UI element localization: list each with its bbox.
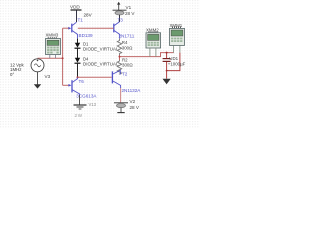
T6 base arrow [68, 84, 71, 87]
wire mid node to T2 base (red) [78, 76, 112, 78]
svg-text:R4: R4 [122, 40, 128, 45]
battery V2 [114, 99, 140, 112]
source V3 [31, 59, 44, 72]
svg-text:2W: 2W [75, 113, 83, 118]
svg-text:V13: V13 [89, 102, 97, 107]
svg-text:2N1711: 2N1711 [119, 33, 135, 38]
wire input net (red) [38, 28, 114, 85]
ground arrow V3 [34, 84, 41, 88]
svg-text:T6: T6 [79, 79, 85, 84]
svg-text:T1: T1 [78, 18, 84, 23]
diode D4 [75, 57, 119, 67]
ground [74, 105, 87, 109]
resistor R4 [117, 39, 133, 55]
svg-text:2N1132A: 2N1132A [122, 88, 142, 93]
node diode bottom junction [77, 76, 79, 78]
wire base T1 horizontal [63, 27, 69, 29]
svg-text:300Ω: 300Ω [122, 46, 133, 51]
wire output to cap (red) [167, 53, 180, 79]
transistor T3 [114, 22, 120, 39]
XMM2 leads [149, 48, 151, 57]
node output junction [119, 56, 121, 58]
wire input vertical [62, 28, 64, 85]
wire D4 to node [77, 63, 79, 77]
XMM3 leads [49, 55, 51, 59]
wire R4 to R2 vertical [119, 55, 121, 60]
wire T1 to T3 base [78, 27, 114, 29]
svg-text:28V: 28V [84, 13, 93, 18]
svg-text:BD139: BD139 [79, 33, 93, 38]
instrument XMM3 [46, 33, 61, 59]
svg-text:V3: V3 [45, 74, 51, 79]
svg-text:DIODE_VIRTUAL: DIODE_VIRTUAL [83, 47, 119, 52]
battery V1 [113, 2, 136, 16]
diode D1 [75, 39, 119, 52]
svg-text:28 V: 28 V [125, 11, 135, 16]
wire source horizontal [38, 57, 63, 59]
svg-text:V1: V1 [126, 5, 132, 10]
svg-text:VDD: VDD [70, 5, 80, 10]
wire T6 emitter to ground [79, 95, 81, 105]
wire T2 emitter to V2 (red) [120, 88, 122, 102]
node cap bottom junction [166, 70, 168, 72]
node cap top junction [166, 52, 168, 54]
wire base T6 horizontal [63, 84, 69, 86]
svg-text:+1000µF: +1000µF [168, 61, 186, 66]
resistor R2 [117, 57, 133, 74]
svg-text:UD1: UD1 [169, 56, 178, 61]
capacitor UD1 [163, 56, 186, 67]
svg-text:V2: V2 [130, 99, 136, 104]
wire D1 to D4 [77, 48, 79, 58]
transistor T6 [72, 78, 80, 96]
svg-text:T2: T2 [122, 71, 128, 76]
wire output node (red) [120, 53, 174, 60]
instrument XMM1 [170, 23, 185, 53]
svg-text:DIODE_VIRTUAL: DIODE_VIRTUAL [83, 62, 119, 67]
power rail VDD [70, 5, 93, 18]
wire node to right [120, 53, 174, 57]
XMM1 leads [173, 45, 175, 52]
V3 value labels [10, 63, 24, 77]
T1 base arrow [68, 27, 71, 30]
svg-text:300Ω: 300Ω [122, 63, 133, 68]
wire V3 to ground [37, 72, 39, 85]
transistor T1 [72, 22, 78, 38]
svg-text:T3: T3 [118, 18, 124, 23]
ground arrow output [163, 79, 171, 84]
svg-text:28 V: 28 V [130, 105, 140, 110]
wire VDD to T1 collector [76, 11, 78, 23]
transistor T2 [112, 70, 120, 88]
node input junction [62, 57, 64, 59]
svg-text:0°: 0° [10, 72, 14, 77]
wire V1 to T3 collector [119, 15, 121, 22]
svg-text:XMM3: XMM3 [46, 33, 59, 38]
instrument XMM2 [146, 27, 161, 56]
